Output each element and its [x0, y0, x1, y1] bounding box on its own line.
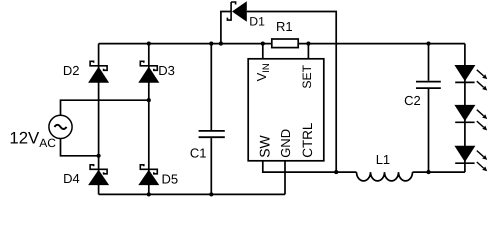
LED LED1 [454, 65, 487, 91]
svg-text:L1: L1 [376, 152, 390, 167]
diode D1 (schottky, freewheel, points left) [227, 1, 246, 22]
wire bottom ground rail [99, 193, 285, 195]
wire C1 bottom [210, 138, 212, 194]
svg-text:CTRL: CTRL [300, 122, 315, 158]
diode D5 (schottky, bridge lower-right) [138, 165, 159, 185]
node D1 cathode rail [219, 42, 223, 46]
svg-text:SET: SET [300, 64, 314, 88]
capacitor C1 plates [199, 131, 225, 137]
LED LED3 [454, 146, 487, 172]
LED LED2 [454, 105, 487, 130]
node C2 bottom [426, 170, 430, 174]
node AC top bridge [147, 98, 151, 102]
wire VIN pin stub [262, 44, 264, 59]
node AC bottom bridge [97, 154, 101, 158]
wire C2 top [428, 44, 430, 81]
node SET tap [306, 42, 310, 46]
wire D1 cathode to rail [221, 12, 231, 44]
svg-text:GND: GND [278, 129, 293, 158]
node C1 top rail [209, 42, 213, 46]
diode D2 (schottky, bridge upper-left) [88, 61, 109, 83]
wire AC source bottom to bridge [61, 139, 99, 156]
resistor R1 [272, 39, 298, 48]
svg-text:D4: D4 [63, 171, 80, 186]
node SW L1 D1 [334, 170, 338, 174]
wire C2 bottom [428, 89, 430, 172]
node D3 top rail [147, 42, 151, 46]
AC source sine symbol [54, 125, 66, 129]
wire top rail (VIN net) [99, 43, 465, 45]
wire right bridge column [148, 44, 150, 195]
svg-text:D2: D2 [63, 63, 80, 78]
wire SET pin stub [307, 44, 309, 59]
wire GND pin stub [284, 161, 286, 195]
node C1 bottom rail [209, 192, 213, 196]
svg-text:R1: R1 [276, 19, 293, 34]
wire inductor to LED bottom [413, 171, 465, 173]
wire SW pin to inductor [263, 161, 357, 172]
wire LED string column [464, 44, 466, 173]
node C2 top rail [426, 42, 430, 46]
capacitor C2 plates [416, 82, 441, 89]
svg-text:D5: D5 [162, 171, 179, 186]
svg-text:C1: C1 [190, 146, 207, 161]
svg-text:D3: D3 [158, 63, 175, 78]
node D5 bottom rail [147, 192, 151, 196]
AC source V1 circle [49, 115, 72, 138]
op IC U1 body [248, 59, 324, 161]
wire C1 top [210, 44, 212, 130]
node VIN tap [261, 42, 265, 46]
svg-text:C2: C2 [404, 93, 421, 108]
wire left bridge column [98, 44, 100, 195]
diode D4 (schottky, bridge lower-left) [88, 165, 109, 185]
diode D3 (schottky, bridge upper-right) [138, 61, 159, 83]
inductor L1 [357, 172, 413, 181]
wire D1 anode to SW node [247, 12, 336, 173]
svg-text:SW: SW [256, 134, 272, 157]
wire AC source top to bridge [61, 100, 149, 115]
svg-text:D1: D1 [249, 15, 265, 29]
